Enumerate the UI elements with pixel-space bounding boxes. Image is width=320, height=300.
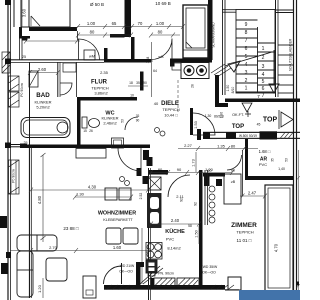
dim line sofa (2.70 / 1.60)	[10, 250, 148, 252]
svg-text:35: 35	[136, 81, 140, 85]
window left room below corner	[20, 39, 23, 61]
BAD/WC left wall of WC	[77, 97, 81, 147]
svg-text:OK.FT.: OK.FT.	[232, 113, 244, 117]
dim line top-left (3.60)	[21, 0, 23, 27]
svg-text:18: 18	[129, 81, 133, 85]
svg-text:11 01 □: 11 01 □	[237, 238, 252, 243]
svg-text:10 69 B: 10 69 B	[155, 1, 171, 6]
FLUR/DIELE wall stub	[140, 72, 144, 91]
door top-left room to flur	[79, 39, 100, 60]
svg-text:1.50: 1.50	[195, 230, 199, 237]
svg-text:1.50: 1.50	[226, 85, 230, 92]
stair middle divider	[257, 27, 259, 93]
dim cluster left of diele	[151, 42, 153, 97]
svg-text:TEPPICH: TEPPICH	[162, 107, 179, 112]
svg-text:2: 2	[245, 78, 248, 84]
dim line AR 2.47	[240, 195, 265, 197]
svg-text:2: 2	[262, 55, 265, 61]
svg-text:10: 10	[130, 94, 134, 98]
dashed beam line diele	[177, 80, 179, 112]
svg-text:TOP: TOP	[263, 117, 278, 124]
svg-text:1.30: 1.30	[205, 114, 212, 118]
burner right	[197, 66, 207, 76]
svg-text:40: 40	[154, 101, 159, 106]
svg-text:7: 7	[245, 38, 248, 44]
duct box bad corner	[29, 71, 38, 87]
svg-text:5: 5	[245, 54, 248, 60]
hatch right of cooktop	[211, 64, 231, 77]
nightstand square	[228, 277, 241, 290]
svg-text:80: 80	[231, 144, 236, 149]
left main wall	[29, 147, 31, 298]
bathtub	[21, 118, 70, 138]
svg-text:4: 4	[245, 62, 248, 68]
kitchen sink unit (dark, two basins)	[148, 194, 162, 228]
svg-text:2.35: 2.35	[100, 70, 109, 75]
svg-text:PVC: PVC	[166, 237, 174, 242]
wall between top rooms (left of room 2)	[125, 0, 132, 37]
svg-text:9: 9	[245, 22, 248, 28]
svg-text:10,44 □: 10,44 □	[164, 113, 178, 118]
svg-text:25: 25	[24, 141, 28, 145]
svg-text:25: 25	[22, 55, 26, 59]
kitchen stove circles	[147, 244, 154, 251]
coffee table	[46, 258, 67, 281]
washing machine FLUR	[84, 50, 95, 60]
right outer wall	[293, 0, 295, 300]
dim line corridor (2.27 1.35 80)	[178, 148, 258, 150]
svg-text:65: 65	[112, 21, 117, 26]
dim line kitchen top (80/90/1.20)	[151, 172, 232, 174]
blue band bottom right	[239, 290, 300, 300]
dim line 1.30	[75, 196, 131, 198]
svg-text:3: 3	[245, 70, 248, 76]
wc sink	[112, 138, 124, 148]
apartment entry door diele	[193, 113, 215, 135]
L corner left of bed wall	[19, 27, 22, 38]
svg-text:1: 1	[245, 86, 248, 92]
stair direction line	[225, 52, 272, 66]
svg-text:23 88 □: 23 88 □	[63, 226, 79, 231]
kitchen / zimmer wall	[199, 170, 203, 288]
bed top-left room	[29, 0, 70, 27]
svg-text:80: 80	[90, 30, 95, 35]
dim line 1.20 vertical	[42, 278, 44, 298]
zimmer top wall left	[203, 173, 225, 177]
burner left	[184, 66, 194, 76]
svg-text:53: 53	[285, 158, 289, 162]
door diele to wohnzimmer	[118, 148, 141, 171]
svg-text:45: 45	[257, 123, 261, 127]
stair outer box	[236, 10, 275, 94]
svg-text:90: 90	[143, 81, 147, 85]
svg-text:1.00: 1.00	[156, 21, 165, 26]
wall segment left of kitchen top	[148, 170, 168, 175]
svg-text:4: 4	[262, 72, 265, 78]
svg-text:70: 70	[138, 21, 143, 26]
chairs pair lower	[106, 228, 121, 244]
left wall corner below bath	[20, 144, 27, 148]
svg-text:1.60: 1.60	[113, 245, 122, 250]
stair down arrow	[269, 84, 279, 93]
dim line bad top (2.60)	[30, 72, 58, 74]
svg-text:wM: wM	[89, 55, 95, 59]
svg-text:1.73: 1.73	[192, 159, 196, 166]
door terrace wohnzimmer	[104, 266, 122, 284]
kitchen upper cabinet with X	[148, 177, 161, 190]
dim vertical line AR right	[242, 150, 244, 196]
svg-text:1.00: 1.00	[87, 21, 96, 26]
top-left room left wall	[13, 0, 15, 27]
svg-text:92: 92	[194, 202, 198, 206]
svg-text:58: 58	[188, 224, 192, 228]
svg-text:5: 5	[262, 79, 265, 85]
jamb line left of flur door	[77, 31, 79, 40]
svg-text:4.70: 4.70	[274, 243, 279, 252]
squares upper pair	[105, 188, 117, 200]
svg-text:1: 1	[262, 46, 265, 52]
outlet circles on wall	[120, 177, 125, 182]
wall right of room 2	[208, 0, 213, 60]
wardrobe top-left room	[21, 0, 29, 27]
sideboard top wall living room	[76, 149, 106, 159]
bathtub drain circle	[57, 122, 68, 133]
dim line room2 lower	[151, 34, 180, 36]
dim line below top wall	[26, 40, 80, 42]
svg-text:28: 28	[191, 84, 195, 88]
wall below top-left bed	[29, 27, 77, 31]
stair steps left flight	[236, 19, 258, 21]
sofa cushion divider	[36, 235, 38, 251]
svg-text:BAD: BAD	[36, 92, 50, 99]
DIELE top wall	[170, 59, 212, 63]
stair hall top wall	[225, 99, 300, 103]
svg-text:1.28: 1.28	[146, 57, 150, 64]
rail junction at bad wall	[5, 59, 11, 65]
zimmer left wall double	[204, 170, 206, 225]
door AR/zimmer vestibule	[227, 155, 242, 170]
FLUR/BAD separating wall	[57, 62, 59, 97]
dim line kitchen bottom 2.40	[151, 223, 199, 225]
svg-text:6: 6	[245, 46, 248, 52]
svg-text:WD 35/W: WD 35/W	[203, 265, 218, 269]
svg-text:1.30: 1.30	[76, 192, 85, 197]
BAD left wall	[29, 62, 31, 147]
svg-text:15: 15	[83, 129, 87, 133]
dim line room2 upper	[151, 26, 183, 28]
svg-text:SCHUTZGELAENDER: SCHUTZGELAENDER	[289, 38, 293, 71]
svg-text:8,14m2: 8,14m2	[167, 246, 181, 251]
dim vertical kitchen 1.50	[198, 226, 200, 244]
svg-text:2.27: 2.27	[184, 143, 193, 148]
small box left of cooktop	[172, 63, 181, 70]
svg-text:1.35: 1.35	[217, 144, 226, 149]
wohnzimmer/kueche wall	[148, 168, 150, 300]
svg-text:6: 6	[262, 86, 265, 92]
toilet WC	[82, 117, 87, 128]
svg-text:1.53: 1.53	[194, 121, 198, 128]
svg-text:wB: wB	[159, 55, 165, 59]
threshold hatch bottom wall	[106, 285, 234, 290]
stair hall left wall	[275, 0, 277, 97]
svg-text:2.47: 2.47	[248, 191, 257, 196]
thin wall lines	[149, 168, 208, 300]
flur left niche line	[76, 62, 78, 97]
door top-middle room to diele	[151, 39, 172, 60]
zimmer wall circles	[209, 186, 215, 192]
svg-text:80: 80	[158, 30, 163, 35]
svg-text:3,86m2: 3,86m2	[94, 91, 108, 96]
svg-text:64: 64	[153, 69, 157, 73]
kitchen left dim line	[141, 228, 143, 284]
svg-text:2.52: 2.52	[139, 193, 143, 200]
svg-text:80/200: 80/200	[214, 115, 224, 119]
door flur to bad	[60, 83, 72, 95]
svg-text:76: 76	[136, 114, 140, 118]
wardrobe zimmer	[265, 185, 293, 291]
desk zimmer	[224, 174, 241, 204]
svg-text:8: 8	[245, 30, 248, 36]
svg-text:WOHNZIMMER: WOHNZIMMER	[98, 211, 136, 217]
hatch corridor wall right	[280, 133, 293, 139]
black mark bottom-left rail	[1, 263, 8, 274]
dim line wohnzimmer width (4.30)	[31, 189, 148, 191]
svg-text:PN. 90cm: PN. 90cm	[158, 272, 174, 276]
AR bottom wall	[248, 176, 293, 180]
svg-text:53: 53	[121, 119, 125, 123]
svg-text:90: 90	[136, 119, 140, 123]
svg-text:80: 80	[158, 167, 163, 172]
cooktop box	[181, 63, 209, 79]
shower box flur niche	[63, 63, 76, 72]
left balcony rail	[7, 0, 9, 300]
dim vertical diele 1.73	[195, 152, 197, 172]
svg-text:90: 90	[177, 167, 182, 172]
entry door post DIELE	[190, 108, 193, 135]
dim line wohnzimmer height (4.80)	[42, 155, 44, 242]
FLUR top wall	[104, 59, 151, 63]
svg-text:1.20: 1.20	[37, 284, 42, 293]
stair direction arrow triangle	[228, 61, 240, 72]
window strip living room left	[9, 160, 20, 194]
door diele to kueche	[168, 175, 190, 197]
black riser boxes on living/kitchen wall	[143, 150, 149, 160]
stair side flight right of wall	[278, 44, 294, 46]
svg-text:2.11: 2.11	[176, 194, 184, 199]
svg-text:4.30: 4.30	[88, 185, 97, 190]
BAD top wall	[11, 59, 105, 61]
kitchen counter hatched bottom	[154, 278, 175, 287]
svg-text:7: 7	[262, 93, 265, 99]
svg-text:SCHRANKWAND: SCHRANKWAND	[212, 22, 216, 48]
rail junction top	[5, 0, 11, 5]
wall below BAD/WC (living room top wall)	[20, 145, 150, 149]
black latch living room rail	[6, 252, 11, 258]
svg-text:PVC: PVC	[259, 162, 267, 167]
sliding door kueche diagonal	[140, 266, 163, 284]
svg-text:2.40: 2.40	[171, 218, 180, 223]
svg-text:OK—OO: OK—OO	[202, 271, 216, 275]
room2 left wall lower part	[131, 37, 135, 63]
black dash right edge	[296, 282, 299, 286]
wall right of DIELE	[215, 75, 219, 107]
svg-text:≥B: ≥B	[231, 180, 236, 184]
bottom wall	[104, 285, 225, 290]
svg-text:KÜCHE: KÜCHE	[165, 228, 185, 235]
window strip bad left	[9, 76, 20, 91]
svg-text:ZIMMER: ZIMMER	[231, 222, 257, 229]
rail junction at living wall	[5, 143, 11, 149]
corridor lower wall (top of AR / entry)	[197, 129, 201, 140]
door wc	[125, 117, 138, 130]
shaft wall left of stair hall	[222, 0, 224, 95]
sofa vertical section	[17, 251, 33, 297]
svg-text:35: 35	[271, 158, 275, 162]
svg-text:1.68 □: 1.68 □	[259, 149, 271, 154]
svg-text:3.60: 3.60	[22, 8, 27, 17]
shelf bottom	[83, 276, 96, 298]
svg-text:2.60: 2.60	[38, 67, 47, 72]
svg-text:Ø 50 B: Ø 50 B	[90, 2, 104, 7]
dim line right edge zimmer	[297, 150, 301, 290]
wall stub top of stairhall	[222, 10, 294, 13]
sofa top section	[17, 235, 57, 251]
svg-text:80: 80	[231, 169, 235, 173]
black mark left rail mid	[0, 216, 7, 228]
dim line top centre upper	[77, 26, 151, 28]
svg-text:5,20m2: 5,20m2	[36, 105, 50, 110]
svg-text:WD 21/W: WD 21/W	[120, 264, 135, 268]
kitchen dark cabinet low	[146, 260, 157, 273]
svg-text:20: 20	[208, 169, 212, 173]
triangle down entry	[242, 103, 252, 112]
svg-text:KLEBEPARKETT: KLEBEPARKETT	[103, 218, 133, 222]
black blocks zimmer corner	[204, 173, 210, 186]
svg-text:2,46m2: 2,46m2	[103, 121, 117, 126]
svg-text:8/10: 8/10	[231, 87, 235, 94]
svg-text:W.500 50/19: W.500 50/19	[239, 134, 257, 138]
svg-text:2.70: 2.70	[49, 245, 58, 250]
svg-text:P0 90cm: P0 90cm	[12, 169, 16, 183]
dim line top centre lower	[77, 34, 131, 36]
svg-text:P0 90cm: P0 90cm	[20, 83, 24, 97]
bed top-middle room	[183, 5, 208, 58]
svg-text:4.80: 4.80	[37, 195, 42, 204]
hatched box balcony top	[2, 52, 10, 73]
door swing triangle right	[281, 112, 293, 127]
svg-text:3: 3	[262, 64, 265, 70]
svg-text:1,40: 1,40	[278, 167, 285, 171]
svg-text:OK—OO: OK—OO	[119, 270, 133, 274]
FLUR / WC separating wall	[77, 97, 137, 101]
outlet circles near living door	[155, 128, 160, 133]
svg-text:26: 26	[89, 129, 93, 133]
svg-text:TEPPICH: TEPPICH	[236, 230, 253, 235]
svg-text:TOP: TOP	[232, 124, 244, 130]
stair steps right flight	[258, 42, 276, 44]
black door post bottom	[136, 262, 141, 288]
